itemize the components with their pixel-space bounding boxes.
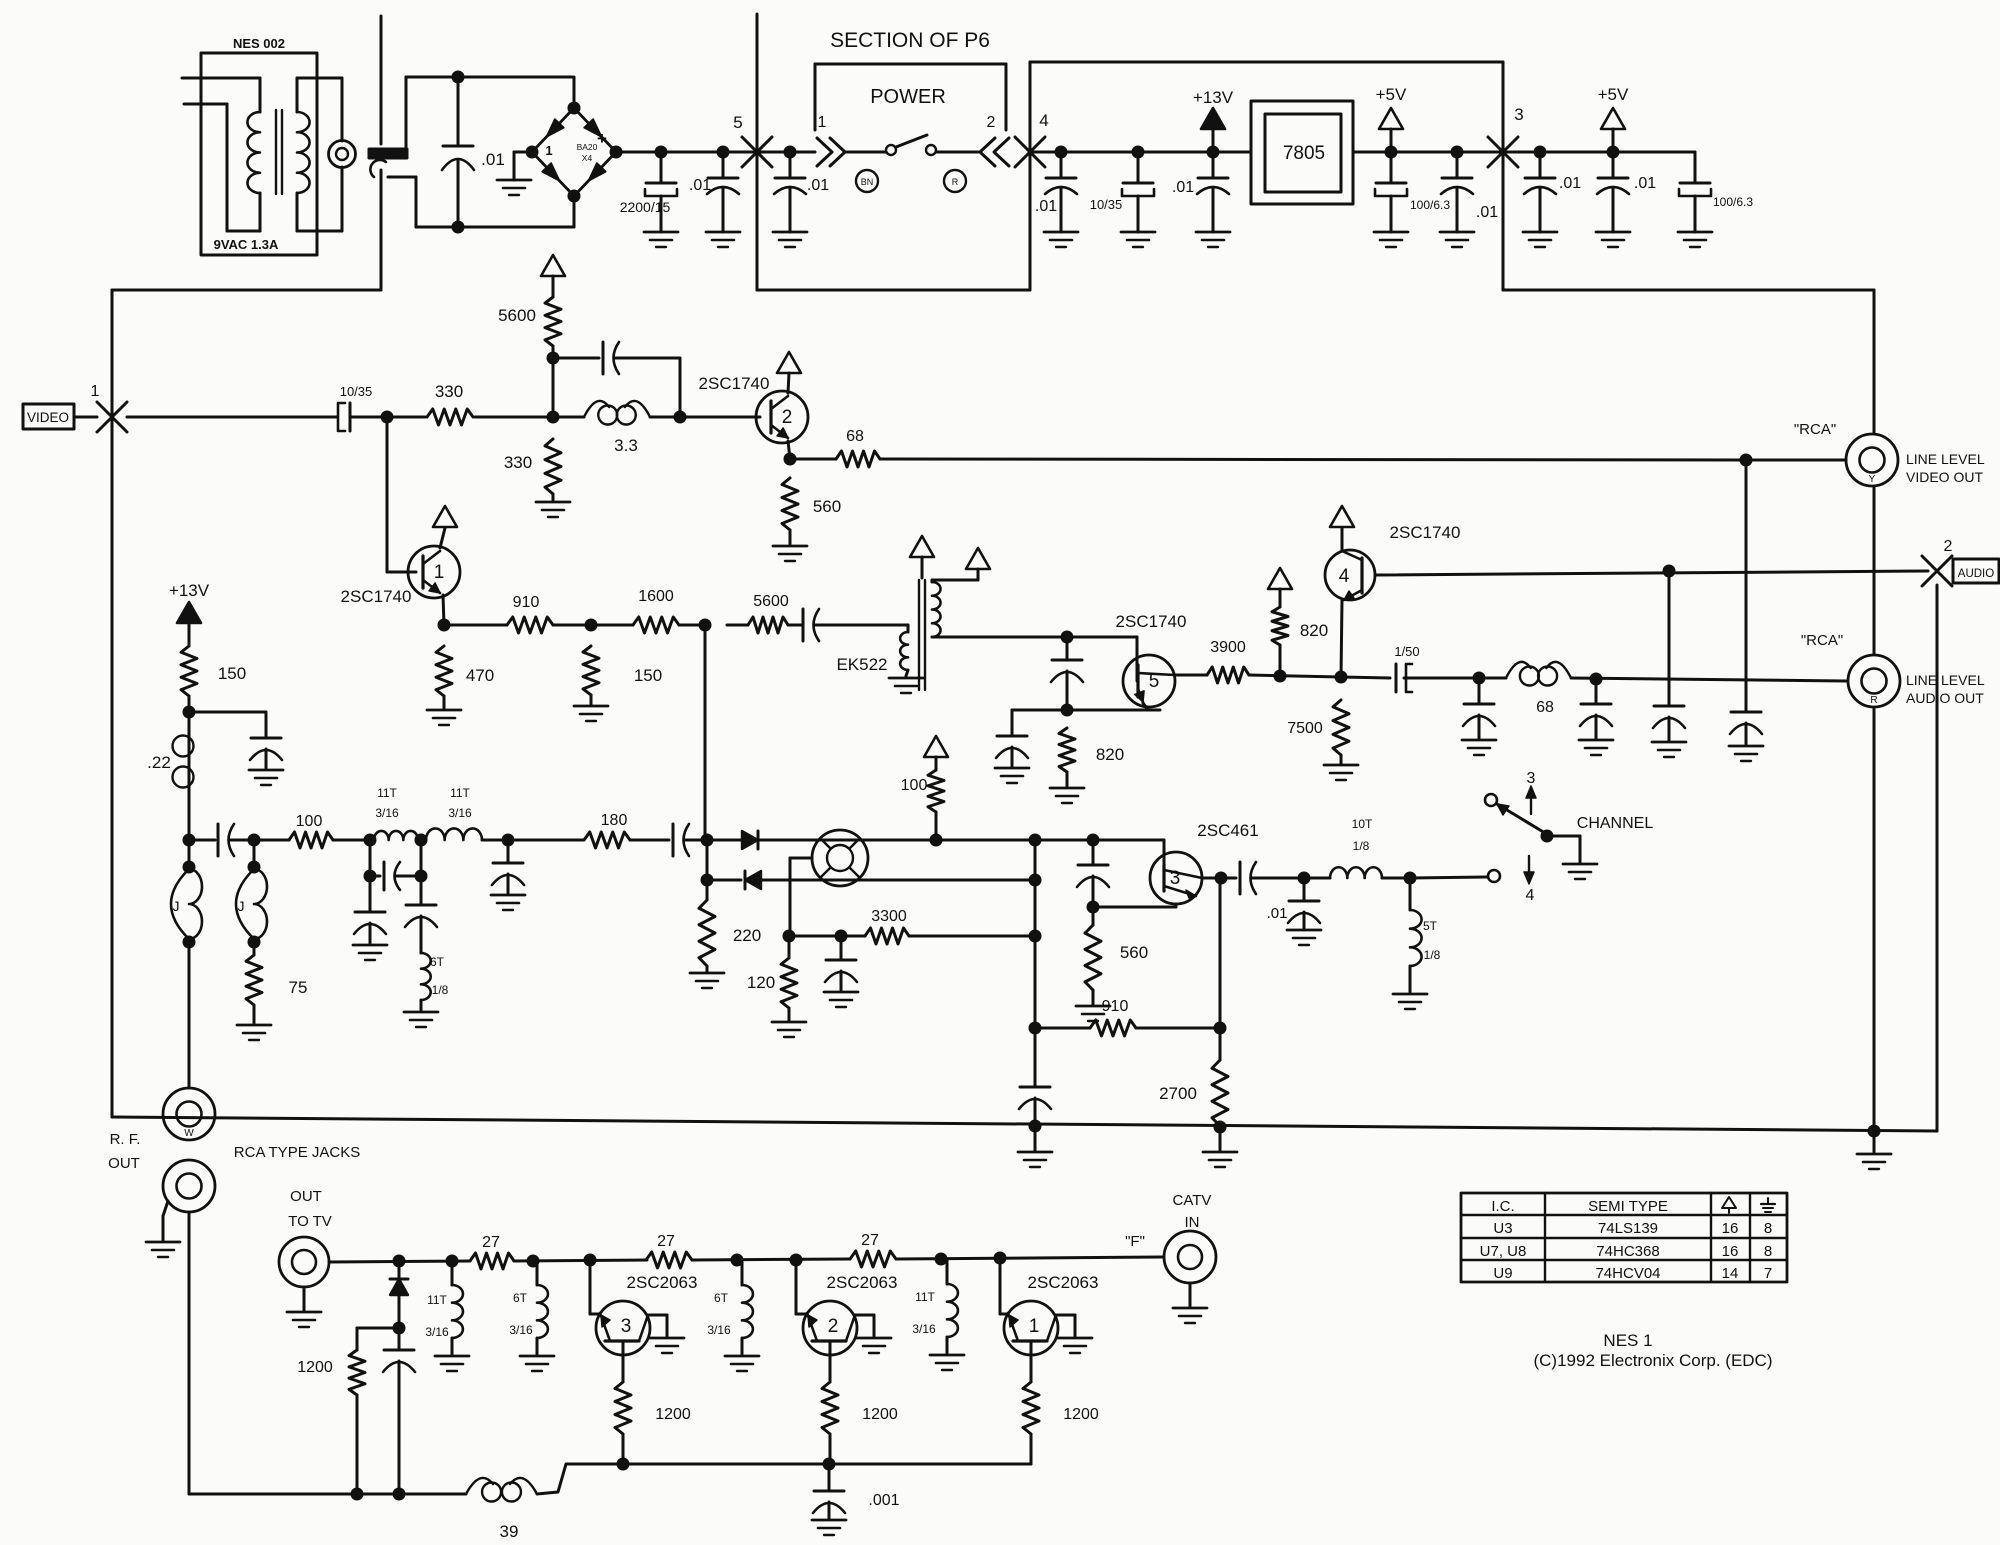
svg-text:3/16: 3/16 [425,1325,449,1339]
svg-text:5: 5 [733,113,742,132]
svg-text:75: 75 [289,978,308,997]
svg-text:1: 1 [545,143,552,158]
svg-text:100: 100 [901,777,928,794]
svg-text:27: 27 [861,1232,879,1249]
svg-text:.01: .01 [1035,198,1057,215]
svg-text:2SC1740: 2SC1740 [341,587,412,606]
svg-text:+5V: +5V [1376,85,1407,104]
svg-text:820: 820 [1096,745,1124,764]
svg-text:U3: U3 [1493,1220,1512,1237]
svg-text:1: 1 [91,383,100,400]
svg-text:2SC1740: 2SC1740 [1390,523,1461,542]
svg-text:VIDEO OUT: VIDEO OUT [1906,469,1983,485]
svg-text:11T: 11T [427,1293,447,1307]
svg-text:J: J [238,898,245,914]
svg-text:OUT: OUT [290,1188,322,1205]
svg-text:"RCA": "RCA" [1794,421,1836,438]
svg-text:2SC2063: 2SC2063 [1028,1273,1099,1292]
svg-text:3: 3 [621,1316,632,1337]
svg-text:X4: X4 [582,153,593,163]
svg-text:J: J [173,898,180,914]
svg-text:11T: 11T [377,786,397,800]
svg-text:4: 4 [1339,566,1350,587]
svg-text:150: 150 [218,664,246,683]
svg-text:6T: 6T [513,1291,528,1305]
svg-text:U9: U9 [1493,1265,1512,1282]
svg-text:.001: .001 [868,1492,899,1509]
svg-text:68: 68 [1536,699,1554,716]
svg-text:39: 39 [500,1522,519,1541]
svg-text:7805: 7805 [1283,143,1325,164]
svg-text:11T: 11T [450,786,470,800]
svg-text:5T: 5T [1423,919,1438,933]
svg-text:4: 4 [1039,111,1048,130]
svg-text:(C)1992 Electronix Corp. (EDC): (C)1992 Electronix Corp. (EDC) [1533,1351,1772,1370]
svg-text:180: 180 [601,812,628,829]
svg-text:8: 8 [1764,1243,1772,1260]
svg-text:+13V: +13V [169,581,210,600]
svg-text:VIDEO: VIDEO [27,410,69,425]
svg-text:CATV: CATV [1173,1192,1212,1209]
svg-text:OUT: OUT [108,1155,140,1172]
svg-text:10T: 10T [1352,817,1373,831]
svg-text:16: 16 [1722,1220,1739,1237]
svg-text:NES 1: NES 1 [1603,1331,1652,1350]
svg-text:LINE LEVEL: LINE LEVEL [1906,672,1985,688]
svg-text:9VAC 1.3A: 9VAC 1.3A [214,237,279,252]
svg-text:100/6.3: 100/6.3 [1713,195,1753,209]
svg-text:3/16: 3/16 [448,806,472,820]
svg-text:2200/15: 2200/15 [620,199,671,215]
svg-text:68: 68 [846,428,864,445]
svg-text:R: R [1870,695,1877,706]
svg-text:470: 470 [466,666,494,685]
svg-text:5: 5 [1149,671,1160,692]
svg-text:10/35: 10/35 [1090,197,1123,212]
svg-text:3.3: 3.3 [614,436,638,455]
svg-text:LINE LEVEL: LINE LEVEL [1906,451,1985,467]
svg-text:560: 560 [813,497,841,516]
svg-text:.01: .01 [1559,175,1581,192]
svg-text:.01: .01 [1267,905,1288,922]
svg-text:74HCV04: 74HCV04 [1595,1265,1660,1282]
svg-text:U7, U8: U7, U8 [1480,1243,1527,1260]
svg-text:AUDIO: AUDIO [1958,568,1994,580]
svg-text:IN: IN [1185,1214,1200,1231]
svg-text:+: + [597,129,607,148]
svg-text:330: 330 [435,382,463,401]
svg-text:120: 120 [747,973,775,992]
svg-text:100: 100 [296,813,323,830]
svg-text:820: 820 [1300,621,1328,640]
svg-text:330: 330 [504,453,532,472]
svg-text:1200: 1200 [1063,1406,1099,1423]
svg-text:.01: .01 [807,177,829,194]
svg-text:NES 002: NES 002 [233,36,285,51]
svg-text:SECTION OF P6: SECTION OF P6 [830,29,990,52]
svg-text:910: 910 [513,594,540,611]
svg-text:TO TV: TO TV [288,1213,332,1230]
svg-text:BN: BN [861,177,874,187]
svg-text:1: 1 [434,562,445,583]
svg-text:27: 27 [482,1234,500,1251]
svg-text:RCA TYPE JACKS: RCA TYPE JACKS [234,1144,360,1161]
svg-text:16: 16 [1722,1243,1739,1260]
svg-text:.01: .01 [481,150,505,169]
svg-text:5600: 5600 [498,306,536,325]
svg-text:+13V: +13V [1193,88,1234,107]
svg-text:2: 2 [987,114,996,131]
svg-text:.01: .01 [689,177,711,194]
svg-text:1600: 1600 [638,588,674,605]
svg-text:2SC1740: 2SC1740 [699,374,770,393]
svg-text:1/8: 1/8 [432,983,449,997]
svg-text:+5V: +5V [1598,85,1629,104]
svg-text:2: 2 [828,1316,839,1337]
svg-text:"F": "F" [1125,1233,1145,1250]
svg-text:74LS139: 74LS139 [1598,1220,1658,1237]
svg-text:.01: .01 [1634,175,1656,192]
svg-text:1/50: 1/50 [1394,644,1419,659]
svg-text:7500: 7500 [1287,720,1323,737]
svg-text:3/16: 3/16 [707,1323,731,1337]
svg-text:5600: 5600 [753,593,789,610]
svg-text:6T: 6T [714,1291,729,1305]
svg-text:220: 220 [733,926,761,945]
svg-text:CHANNEL: CHANNEL [1577,815,1654,832]
svg-text:11T: 11T [915,1290,935,1304]
svg-text:2: 2 [1944,538,1953,555]
svg-text:8: 8 [1764,1220,1772,1237]
svg-text:2SC2063: 2SC2063 [627,1273,698,1292]
svg-text:EK522: EK522 [836,655,887,674]
svg-text:3/16: 3/16 [509,1323,533,1337]
svg-text:4: 4 [1526,887,1535,904]
svg-text:R: R [952,177,959,187]
svg-text:14: 14 [1722,1265,1739,1282]
svg-text:2SC2063: 2SC2063 [827,1273,898,1292]
svg-text:3/16: 3/16 [912,1322,936,1336]
svg-text:3300: 3300 [871,908,907,925]
svg-text:3: 3 [1527,770,1536,787]
svg-text:74HC368: 74HC368 [1596,1243,1659,1260]
svg-text:10/35: 10/35 [340,384,373,399]
svg-text:6T: 6T [430,955,445,969]
svg-text:1/8: 1/8 [1353,839,1370,853]
svg-text:3/16: 3/16 [375,806,399,820]
svg-text:560: 560 [1120,943,1148,962]
svg-text:POWER: POWER [870,86,946,108]
svg-text:1200: 1200 [297,1359,333,1376]
svg-text:150: 150 [634,666,662,685]
svg-text:1: 1 [818,114,827,131]
svg-text:7: 7 [1764,1265,1772,1282]
svg-text:1/8: 1/8 [1424,948,1441,962]
svg-text:BA20: BA20 [577,142,598,152]
svg-text:2700: 2700 [1159,1084,1197,1103]
svg-text:3900: 3900 [1210,639,1246,656]
svg-text:W: W [184,1128,194,1139]
svg-text:AUDIO OUT: AUDIO OUT [1906,690,1984,706]
svg-text:.01: .01 [1172,179,1194,196]
svg-text:1200: 1200 [655,1406,691,1423]
svg-text:.22: .22 [147,753,171,772]
svg-text:3: 3 [1514,105,1523,124]
svg-text:I.C.: I.C. [1491,1198,1514,1215]
svg-text:Y: Y [1869,474,1876,485]
svg-text:2: 2 [782,407,793,428]
svg-text:1200: 1200 [862,1406,898,1423]
svg-text:2SC1740: 2SC1740 [1116,612,1187,631]
svg-text:SEMI TYPE: SEMI TYPE [1588,1198,1668,1215]
svg-text:1: 1 [1029,1316,1040,1337]
svg-text:R. F.: R. F. [110,1131,141,1148]
svg-text:.01: .01 [1476,204,1498,221]
svg-text:"RCA": "RCA" [1801,632,1843,649]
svg-text:100/6.3: 100/6.3 [1410,198,1450,212]
svg-text:2SC461: 2SC461 [1197,821,1258,840]
svg-text:27: 27 [657,1233,675,1250]
